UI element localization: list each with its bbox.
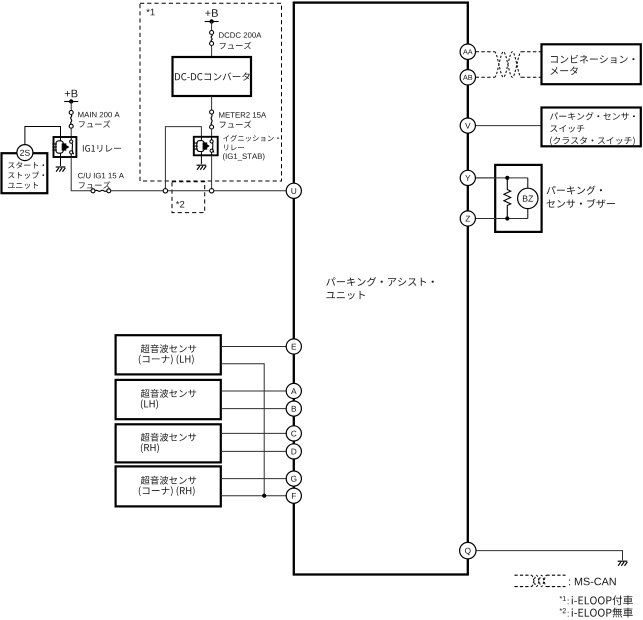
ultrasonic sensor box 2 [116,380,221,419]
terminal B [286,401,301,416]
DC-DC converter box [173,57,252,96]
twisted pair MS-CAN [495,52,522,78]
ultrasonic sensor box 3 [116,424,221,462]
terminal E [286,339,301,354]
label MAIN 200 A fuse [78,112,119,128]
parking assist unit box U1 [294,3,468,575]
wire ignition relay coil to ground [200,155,202,164]
legend note *1 i-ELOOP [560,595,633,605]
fuse C/U IG1 15 A [91,189,111,193]
fuse METER2 15A [210,110,214,129]
wire IG1 relay switch to bus [71,157,91,191]
wire Y node across buzzer top [476,177,528,179]
fuse DCDC 200A [210,31,214,46]
label parking assist unit [326,277,434,300]
terminal AA [460,44,475,59]
terminal D [286,444,301,459]
wire MAIN fuse to IG1 relay switch [70,128,72,137]
terminal G [286,471,301,486]
junction dot buzzer top [505,176,509,180]
wire +B to DCDC fuse [211,22,213,31]
relay K1 IG1 relay [52,137,76,157]
wire sensor1 pin1 to terminal E [221,346,286,348]
wire twisted pair to combination meter (lower, dashed) [521,76,541,78]
wire terminal V to parking sensor switch [476,125,542,127]
wire terminal AB to twisted pair (dashed) [476,76,495,78]
label sensor 2 [141,389,196,409]
terminal C [286,426,301,441]
wire sensor4 pin1 to terminal G [221,478,286,480]
wire sensor2 pin2 to terminal B [221,408,286,410]
terminal Z [460,211,475,226]
wire Z node across buzzer bottom [476,218,528,220]
label sensor 4 [139,476,196,496]
wire METER2 fuse to ignition relay switch [211,129,213,137]
ultrasonic sensor box 4 [116,466,221,506]
junction connector on bus (left) [163,189,167,193]
fuse MAIN 200 A [69,111,73,129]
wire BZ branch [527,178,529,219]
dashed option region *2 [172,182,205,213]
terminal Q [460,542,476,558]
junction connector on bus (right) [209,189,213,193]
label parking sensor switch [550,112,635,145]
wire bus to terminal U [111,190,286,192]
label IG1 relay [83,145,121,152]
terminal AB [460,70,475,85]
terminal U [286,183,301,198]
wire sensor3 pin1 to terminal C [221,432,286,434]
label parking sensor buzzer [547,186,615,208]
terminal A [286,383,301,398]
terminal F [286,488,301,503]
wire +B to MAIN fuse [70,102,72,111]
wire bus to ignition relay coil [165,127,201,189]
ground below IG1 relay [56,167,66,172]
wire IG1 relay coil to ground [60,157,62,166]
label METER2 15A fuse [219,112,266,128]
label C/U IG1 fuse [78,173,124,189]
junction dot on F net [262,494,266,498]
combination meter box [542,44,641,84]
label ignition relay [223,135,279,161]
ground below ignition relay [197,165,207,170]
label sensor 3 [141,433,196,453]
wire twisted pair to combination meter (upper, dashed) [521,51,541,53]
dashed option region *1 [140,3,282,181]
label DC-DC converter [175,72,250,80]
junction dot buzzer bottom [505,216,509,220]
wire sensor1 pin2 down to F-net junction [221,364,264,496]
legend note *2 i-ELOOP [560,608,633,618]
label sensor 1 [139,344,196,364]
power +B node (DCDC) [205,9,219,23]
wire ignition relay switch to bus [211,155,213,188]
resistor in buzzer [504,178,511,219]
power +B node (MAIN) [64,90,78,104]
label *1 [146,9,154,16]
wire DCDC fuse to DC-DC converter [211,46,213,58]
ultrasonic sensor box 1 [116,335,221,374]
wire terminal Q to ground [476,551,623,561]
label combination meter [550,55,634,75]
wire sensor2 pin1 to terminal A [221,390,286,392]
wire start-stop unit to IG1 relay coil [25,127,61,145]
label start-stop unit [8,162,44,189]
wire sensor4 pin2 to terminal F [221,495,286,497]
buzzer BZ [518,188,538,208]
start-stop unit box [2,153,48,193]
terminal Y [460,170,475,185]
ground at Q wire end [618,561,628,566]
wire terminal Y into buzzer box [476,177,508,179]
terminal V [460,118,475,133]
wire DC-DC converter to METER2 fuse [211,96,213,110]
parking sensor switch box [542,108,641,147]
wire terminal AA to twisted pair (dashed) [476,51,495,53]
terminal 2S on start-stop unit [17,145,33,161]
relay K2 ignition relay (IG1_STAB) [193,137,218,156]
legend MS-CAN twisted pair symbol [515,575,566,586]
parking sensor buzzer box [495,165,541,232]
wire terminal Z into buzzer box [476,218,508,220]
label *2 [176,201,184,208]
label DCDC 200A fuse [219,32,261,49]
legend label MS-CAN [569,578,616,586]
wire sensor3 pin2 to terminal D [221,450,286,452]
